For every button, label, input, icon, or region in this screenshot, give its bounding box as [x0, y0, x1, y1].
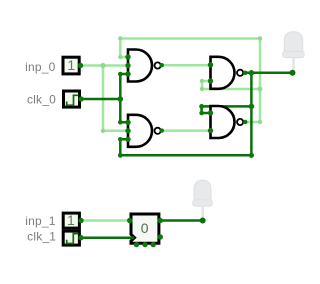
wire Q net: G3 out to LED1: [245, 72, 293, 75]
wire clk_0 vertical G1.in3 to G2.in1: [120, 74, 128, 122]
svg-text:1: 1: [67, 57, 75, 73]
nand gate G4: [208, 106, 248, 138]
led LED1: [283, 32, 305, 76]
svg-text:1: 1: [67, 212, 75, 228]
clock clk_1 box: [63, 231, 84, 245]
nand gate G1: [125, 50, 164, 82]
label inp_1: [25, 214, 55, 228]
label clk_1: [27, 230, 56, 244]
nand gate G2: [125, 115, 164, 147]
svg-text:0: 0: [141, 220, 149, 236]
wire inp_0 branch to G2 in2: [103, 66, 128, 131]
node corner dots dark: [118, 70, 255, 158]
wire G2 out to G4 in2: [162, 129, 211, 132]
svg-text:inp_1: inp_1: [25, 214, 55, 228]
wire Qbar net (light green, logic 1): G4 out to vertical riser: [120, 39, 260, 123]
wire Q feedback to G2 in3: [120, 139, 251, 155]
svg-text:inp_0: inp_0: [25, 60, 55, 74]
wire Q vertical drop: [250, 73, 253, 156]
wire inp_1 to FF D input: [81, 219, 130, 222]
d flip-flop U1: [127, 214, 163, 247]
label clk_0: [27, 93, 56, 107]
wire clk_1 end inside FF wedge notch: [127, 236, 134, 239]
label inp_0: [25, 60, 55, 74]
wire Q branch to G4 in1: [202, 106, 252, 113]
input inp_0 box: [63, 57, 83, 74]
wire FF Q out to LED2: [160, 219, 202, 222]
node corner dots light: [100, 36, 262, 133]
wire inp_0 net to G1 in2: [81, 64, 129, 67]
wire G1 out to G3 in1: [162, 64, 211, 67]
wire Qbar branch to G3 in2: [202, 81, 260, 89]
wire clk_1 to FF clock: [81, 236, 134, 239]
svg-text:clk_0: clk_0: [27, 93, 56, 107]
nand gate G3: [208, 57, 248, 89]
wire clk_0 net (dark green, logic 0): [81, 98, 120, 101]
clock clk_0 box: [64, 91, 84, 107]
led LED2: [193, 180, 213, 223]
svg-text:clk_1: clk_1: [27, 230, 56, 244]
input inp_1 box: [63, 212, 84, 228]
